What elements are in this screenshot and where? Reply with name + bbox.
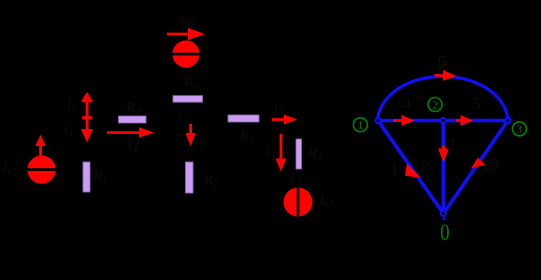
svg-text:4: 4 [403,94,412,113]
svg-text:0: 0 [440,219,449,245]
svg-text:3: 3 [491,155,500,174]
svg-text:5: 5 [472,94,481,113]
svg-text:1: 1 [358,120,364,132]
svg-text:6: 6 [438,52,447,71]
svg-text:2: 2 [432,99,438,111]
svg-text:1: 1 [390,160,399,179]
svg-text:2: 2 [447,135,456,154]
svg-text:3: 3 [517,124,523,136]
